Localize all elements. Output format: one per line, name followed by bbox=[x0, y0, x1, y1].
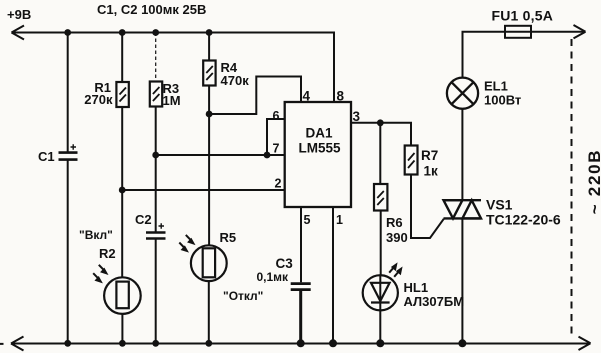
svg-text:R5: R5 bbox=[220, 230, 237, 245]
wire C2 to bottom rail bbox=[155, 240, 157, 344]
top right arrow bbox=[574, 25, 586, 38]
svg-text:VS1: VS1 bbox=[486, 197, 513, 213]
junction pin3 R6 bbox=[377, 119, 384, 126]
svg-text:6: 6 bbox=[273, 109, 280, 123]
junction bottom HL1 bbox=[376, 339, 384, 347]
wire R4 branch top bbox=[208, 33, 210, 61]
photoresistor R5 bbox=[191, 245, 227, 281]
wire C1 branch bbox=[67, 33, 69, 344]
wire R1 to R2 bbox=[121, 107, 123, 277]
junction top rail R1 bbox=[119, 29, 126, 36]
svg-text:C2: C2 bbox=[135, 212, 152, 227]
HL1 light arrows bbox=[389, 264, 401, 277]
R2 light arrows bbox=[93, 265, 107, 282]
svg-text:1: 1 bbox=[336, 213, 343, 227]
svg-text:LM555: LM555 bbox=[298, 141, 341, 156]
junction R3 pin7 bbox=[152, 152, 159, 159]
svg-text:R2: R2 bbox=[99, 246, 116, 261]
wire pin5 to C3 bbox=[300, 207, 302, 282]
svg-text:R7: R7 bbox=[421, 148, 438, 163]
wire pin6 net bbox=[267, 119, 285, 155]
svg-text:3: 3 bbox=[353, 109, 361, 124]
svg-text:EL1: EL1 bbox=[484, 79, 508, 94]
wire R1 branch top bbox=[121, 33, 123, 83]
svg-text:390: 390 bbox=[386, 230, 408, 245]
svg-text:1к: 1к bbox=[424, 164, 439, 179]
junction top rail R3 bbox=[152, 29, 159, 36]
wire R3 to C2 bbox=[155, 107, 157, 232]
svg-text:7: 7 bbox=[273, 142, 280, 156]
junction bottom R5 bbox=[205, 340, 212, 347]
wire pin3 to R6 bbox=[379, 123, 381, 184]
R5 light arrows bbox=[179, 235, 194, 251]
capacitor C1 bbox=[59, 153, 78, 160]
power +9V arrow bbox=[12, 26, 25, 40]
svg-text:+9В: +9В bbox=[7, 7, 31, 22]
svg-text:C1, C2 100мк 25В: C1, C2 100мк 25В bbox=[97, 2, 206, 17]
svg-text:DA1: DA1 bbox=[305, 126, 332, 141]
bottom right arrow bbox=[579, 337, 591, 350]
dashed mains separator bbox=[571, 39, 573, 338]
svg-text:C1: C1 bbox=[38, 149, 55, 164]
junction bottom pin1 bbox=[329, 339, 337, 347]
lamp EL1 bbox=[447, 78, 478, 109]
wire R3 branch top bbox=[155, 33, 157, 82]
junction bottom C2 bbox=[152, 340, 159, 347]
triac VS1 bbox=[444, 200, 482, 218]
wire pin4 net bbox=[209, 77, 301, 115]
svg-text:470к: 470к bbox=[221, 73, 250, 88]
wire pin1 to bottom rail bbox=[332, 207, 334, 343]
C2 plus mark bbox=[159, 223, 165, 229]
svg-text:5: 5 bbox=[304, 213, 311, 227]
junction bottom VS1 bbox=[458, 339, 466, 347]
wire R5 to bottom rail bbox=[208, 281, 210, 343]
C1 plus mark bbox=[71, 144, 77, 150]
junction R1 pin2 bbox=[119, 187, 126, 194]
wire pin7 net bbox=[156, 154, 285, 156]
op-amp timer U DA1 bbox=[285, 102, 351, 207]
svg-text:C3: C3 bbox=[276, 256, 294, 271]
svg-text:0,1мк: 0,1мк bbox=[257, 270, 290, 284]
svg-text:8: 8 bbox=[337, 89, 345, 104]
photoresistor R2 bbox=[104, 277, 141, 314]
junction top rail R4 bbox=[206, 29, 213, 36]
resistor R3 bbox=[150, 82, 162, 107]
svg-text:1М: 1М bbox=[163, 93, 181, 108]
resistor R7 bbox=[405, 146, 418, 175]
junction top rail C1 bbox=[64, 29, 71, 36]
wire R6 to HL1 bbox=[380, 211, 382, 276]
svg-text:ТС122-20-6: ТС122-20-6 bbox=[486, 212, 561, 228]
resistor R4 bbox=[203, 61, 215, 86]
LED HL1 bbox=[363, 275, 398, 343]
junction bottom R2 bbox=[119, 340, 126, 347]
junction pin6 pin7 bbox=[264, 152, 271, 159]
wire R4 to R5 bbox=[208, 86, 210, 246]
wire pin2 net bbox=[122, 189, 285, 191]
wire top right to fuse bbox=[463, 32, 585, 78]
capacitor C2 bbox=[146, 233, 166, 239]
bottom left arrow bbox=[11, 337, 24, 351]
junction bottom C3 bbox=[297, 339, 305, 347]
capacitor C3 bbox=[291, 284, 311, 290]
svg-text:270к: 270к bbox=[84, 92, 113, 107]
svg-text:"Откл": "Откл" bbox=[223, 289, 263, 303]
svg-text:~ 220В: ~ 220В bbox=[585, 149, 601, 215]
resistor R6 bbox=[374, 184, 387, 211]
svg-text:2: 2 bbox=[275, 177, 282, 191]
svg-text:АЛ307БМ: АЛ307БМ bbox=[404, 294, 465, 309]
junction R4 pin4 bbox=[206, 111, 213, 118]
svg-text:R6: R6 bbox=[386, 215, 403, 230]
svg-text:FU1 0,5А: FU1 0,5А bbox=[492, 8, 554, 24]
wire R2 to bottom rail bbox=[121, 314, 123, 343]
wire triac to bottom rail bbox=[461, 218, 463, 343]
wire pin3 net bbox=[351, 123, 411, 146]
wire EL1 to triac bbox=[461, 109, 463, 200]
wire top +9V rail bbox=[12, 33, 335, 103]
svg-text:100Вт: 100Вт bbox=[484, 93, 521, 108]
svg-text:HL1: HL1 bbox=[404, 280, 429, 295]
svg-text:4: 4 bbox=[303, 89, 311, 104]
svg-text:"Вкл": "Вкл" bbox=[79, 228, 113, 242]
wire bottom rail bbox=[0, 343, 590, 345]
junction bottom C1 bbox=[64, 340, 71, 347]
wire C3 to bottom rail bbox=[299, 291, 302, 343]
fuse FU1 bbox=[505, 26, 531, 38]
fuse FU1 inner line bbox=[505, 31, 531, 33]
resistor R1 bbox=[116, 82, 128, 107]
wire R7 to triac gate bbox=[411, 175, 444, 239]
